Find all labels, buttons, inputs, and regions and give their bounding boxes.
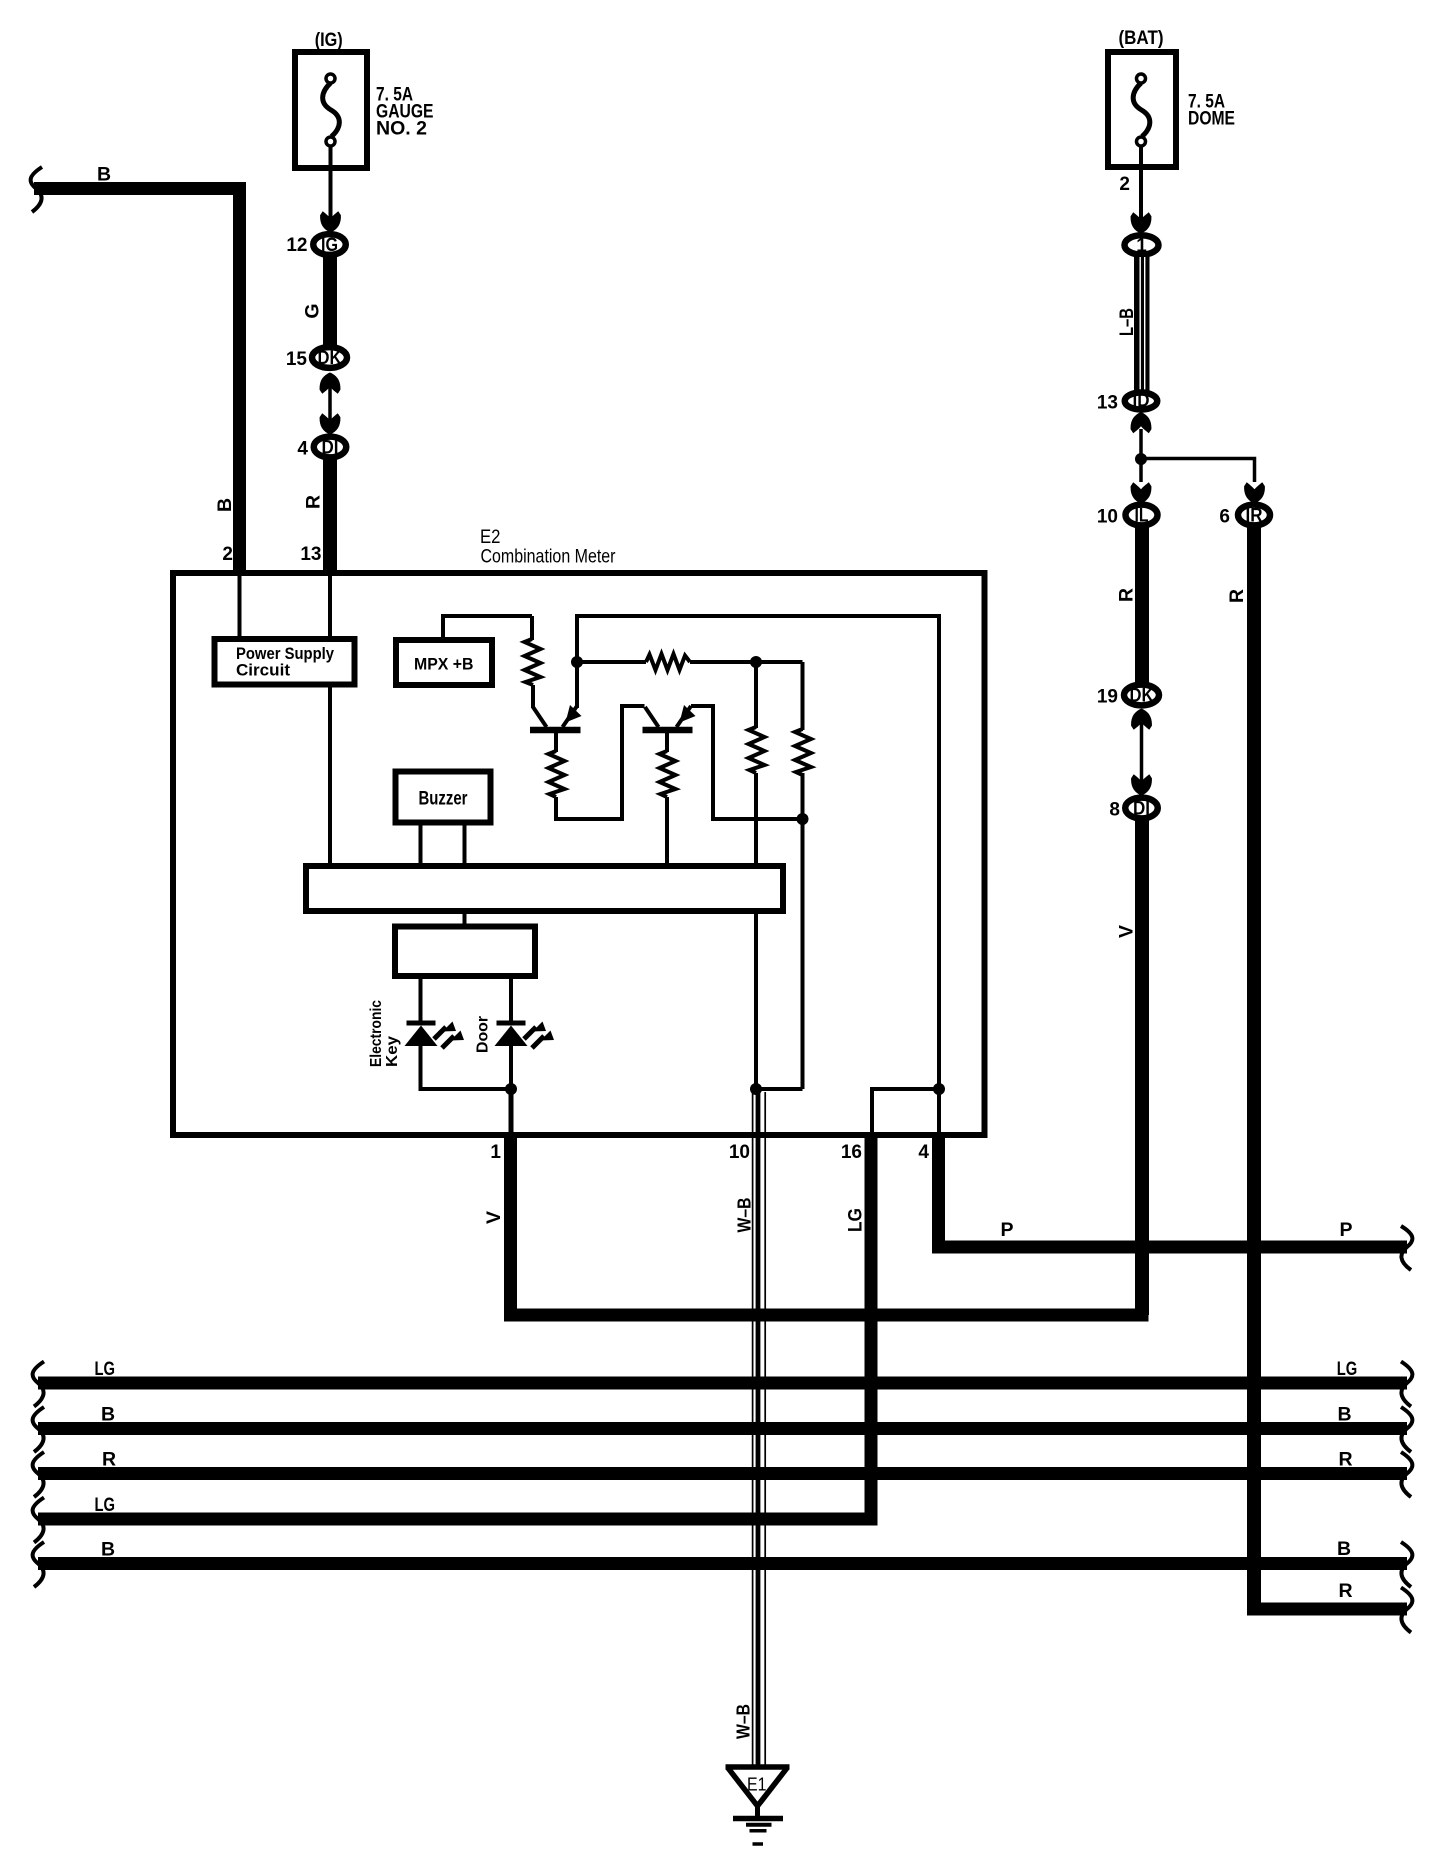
break symbol A right xyxy=(1401,1362,1412,1407)
connector arrow into IL xyxy=(1131,482,1152,503)
svg-text:Door: Door xyxy=(475,1016,492,1053)
svg-text:E2: E2 xyxy=(480,527,501,548)
wire MPX+B to R1 xyxy=(443,616,532,640)
svg-text:10: 10 xyxy=(1097,507,1118,528)
connector arrow into 1 xyxy=(1131,212,1152,233)
svg-text:NO. 2: NO. 2 xyxy=(376,119,427,140)
svg-text:R: R xyxy=(1338,1449,1352,1471)
svg-text:Electronic: Electronic xyxy=(368,1000,385,1067)
break symbol B left xyxy=(33,1407,44,1452)
wire LED2 return xyxy=(509,1046,513,1089)
fuse F1 7.5A GAUGE NO.2 xyxy=(295,52,367,168)
svg-text:LG: LG xyxy=(846,1208,867,1232)
svg-text:Buzzer: Buzzer xyxy=(419,789,468,810)
connector DI pin 8 xyxy=(1125,798,1158,820)
resistor R5 xyxy=(795,662,811,1089)
node D junction pin4 rail xyxy=(933,1083,945,1095)
node A top junction xyxy=(571,656,583,668)
svg-text:16: 16 xyxy=(841,1142,862,1163)
svg-text:4: 4 xyxy=(918,1142,929,1163)
resistor R6 (Q2 emitter) xyxy=(660,751,676,866)
svg-text:R: R xyxy=(1226,589,1248,603)
ground bar 4 xyxy=(753,1842,764,1846)
break symbol A left xyxy=(33,1362,44,1407)
svg-text:IL: IL xyxy=(1135,506,1149,527)
wire G xyxy=(323,256,337,346)
svg-text:(BAT): (BAT) xyxy=(1119,28,1164,49)
transistor Q1 xyxy=(530,705,582,752)
connector IL pin 10 xyxy=(1126,505,1158,527)
svg-text:10: 10 xyxy=(729,1142,750,1163)
wire bus to pin10 node xyxy=(754,910,758,1089)
break symbol left of B xyxy=(31,167,42,212)
svg-text:L–B: L–B xyxy=(1117,308,1138,336)
fuse F2 7.5A DOME xyxy=(1108,52,1176,167)
ground bar 2 xyxy=(746,1823,772,1827)
wire LG from pin 16 xyxy=(865,1135,878,1519)
svg-text:LG: LG xyxy=(94,1495,115,1516)
svg-text:1: 1 xyxy=(490,1142,501,1163)
svg-text:P: P xyxy=(1339,1219,1352,1241)
connector arrow up below DK xyxy=(320,373,341,394)
ground stub xyxy=(755,1803,760,1818)
svg-text:(IG): (IG) xyxy=(315,30,343,51)
wire V horizontal xyxy=(504,1309,1149,1322)
wire run B (line B) xyxy=(38,1422,1407,1435)
svg-text:LG: LG xyxy=(1337,1359,1358,1380)
wire V from DI down xyxy=(1135,820,1149,1315)
node E junction W-B xyxy=(750,1083,762,1095)
wire to pin 1 xyxy=(509,1089,514,1132)
svg-text:R: R xyxy=(1338,1580,1352,1602)
wire pin2 to power supply xyxy=(238,576,242,639)
svg-text:6: 6 xyxy=(1219,507,1230,528)
svg-text:2: 2 xyxy=(222,544,233,565)
connector arrow up below DK right xyxy=(1131,709,1152,730)
wire between DK and DI right xyxy=(1140,712,1144,792)
wire LED1 return xyxy=(421,1046,512,1089)
wire B vertical to pin 2 xyxy=(233,182,246,570)
svg-text:E1: E1 xyxy=(747,1775,767,1795)
LED D1 Electronic Key xyxy=(405,1022,465,1049)
connector arrow into IG xyxy=(320,211,341,232)
svg-text:G: G xyxy=(302,303,324,318)
svg-text:B: B xyxy=(1337,1538,1351,1560)
ground E1 triangle xyxy=(726,1767,790,1806)
wire run LG (line A) xyxy=(38,1377,1407,1390)
node LED junction xyxy=(505,1083,517,1095)
node junction xyxy=(1135,453,1147,465)
svg-text:DI: DI xyxy=(322,438,339,459)
svg-text:R: R xyxy=(303,495,325,509)
svg-text:4: 4 xyxy=(297,439,308,460)
svg-text:1: 1 xyxy=(1136,236,1147,257)
box buzzer xyxy=(396,772,491,823)
svg-text:Combination Meter: Combination Meter xyxy=(481,547,617,568)
svg-text:W–B: W–B xyxy=(735,1198,755,1233)
wire P from pin 4 xyxy=(939,1135,1408,1247)
svg-text:B: B xyxy=(101,1404,115,1426)
connector arrow down into DI xyxy=(320,413,341,434)
resistor R2 (Q1 emitter) xyxy=(549,751,565,821)
wire R into pin 13 xyxy=(323,459,337,570)
svg-text:R: R xyxy=(102,1449,116,1471)
connector DI pin 4 xyxy=(314,437,347,459)
wire driver to LED1 xyxy=(419,976,423,1022)
wire top rail xyxy=(577,616,939,1089)
wire fuse output xyxy=(329,146,333,231)
svg-text:IG: IG xyxy=(321,235,338,256)
resistor R4 xyxy=(749,662,765,866)
box MPX +B xyxy=(396,640,492,685)
svg-text:15: 15 xyxy=(286,349,308,370)
node B junction xyxy=(750,656,762,668)
wire L-B (striped) xyxy=(1134,257,1150,391)
connector DK pin 19 xyxy=(1124,685,1159,707)
svg-text:MPX +B: MPX +B xyxy=(414,655,474,674)
svg-text:13: 13 xyxy=(1097,393,1118,414)
svg-text:DK: DK xyxy=(1130,686,1154,707)
box LED driver xyxy=(395,927,535,977)
wire driver to LED2 xyxy=(509,976,513,1022)
bus bar block xyxy=(306,866,783,911)
wire power supply to bus xyxy=(328,684,332,866)
svg-text:B: B xyxy=(214,498,236,512)
wire down to junction xyxy=(1139,429,1143,482)
connector ID pin 13 xyxy=(1125,391,1158,411)
svg-text:IR: IR xyxy=(1246,506,1263,527)
connector DK pin 15 xyxy=(312,347,347,369)
connector 1 xyxy=(1125,235,1159,256)
resistor R1 xyxy=(525,616,541,708)
svg-text:19: 19 xyxy=(1097,687,1118,708)
connector arrow down into DI right xyxy=(1131,774,1152,795)
ground bar 1 xyxy=(733,1816,783,1822)
connector arrow into IR xyxy=(1244,482,1265,503)
svg-text:B: B xyxy=(1337,1404,1351,1426)
svg-text:V: V xyxy=(1116,925,1138,938)
LED D2 Door xyxy=(495,1022,555,1049)
break symbol D left xyxy=(33,1498,44,1543)
svg-text:ID: ID xyxy=(1133,391,1150,411)
wire buzzer leg 1 xyxy=(419,822,423,866)
break symbol B right xyxy=(1401,1407,1412,1452)
node C junction R5 xyxy=(797,813,809,825)
svg-text:2: 2 xyxy=(1119,174,1130,195)
svg-text:B: B xyxy=(97,164,111,186)
break symbol C right xyxy=(1401,1452,1412,1497)
svg-text:R: R xyxy=(1116,588,1138,602)
svg-text:DK: DK xyxy=(318,348,342,369)
wire notch to pin16 xyxy=(872,1089,939,1132)
svg-text:DI: DI xyxy=(1133,799,1150,820)
svg-text:V: V xyxy=(483,1211,505,1224)
svg-text:W–B: W–B xyxy=(734,1704,754,1739)
break symbol P right xyxy=(1401,1226,1412,1270)
svg-text:DOME: DOME xyxy=(1188,109,1235,130)
wire run B (line E) xyxy=(38,1557,1407,1570)
svg-text:P: P xyxy=(1000,1219,1013,1241)
connector IR pin 6 xyxy=(1238,505,1270,527)
wire pin13 to power supply xyxy=(328,576,332,639)
break symbol E right xyxy=(1401,1542,1412,1587)
box power supply circuit xyxy=(215,639,355,685)
connector IG pin 12 xyxy=(313,234,346,256)
wire buzzer leg 2 xyxy=(463,822,467,866)
wire run R (line C) xyxy=(38,1467,1407,1480)
wire R from IL to DK xyxy=(1135,527,1149,684)
wire branch to IR xyxy=(1141,459,1255,483)
wire Q1 to Q2 loop xyxy=(556,706,645,819)
wire R5 bottom to node E xyxy=(756,1087,803,1091)
wire B horizontal xyxy=(34,182,246,195)
svg-text:13: 13 xyxy=(300,544,321,565)
wire bus to LED driver xyxy=(463,911,467,928)
connector arrow up below ID xyxy=(1131,412,1152,433)
svg-text:8: 8 xyxy=(1109,800,1120,821)
break symbol F right xyxy=(1401,1588,1412,1633)
svg-text:LG: LG xyxy=(94,1359,115,1380)
svg-text:Circuit: Circuit xyxy=(236,661,290,680)
wire node A down to Q1 xyxy=(575,662,579,708)
svg-text:B: B xyxy=(101,1539,115,1561)
break symbol E left xyxy=(33,1542,44,1587)
wire run LG (line D) to pin16 xyxy=(38,1513,878,1526)
resistor R3 (horizontal) xyxy=(577,654,803,670)
wire V from pin 1 xyxy=(504,1135,517,1315)
wire R from IR down xyxy=(1247,527,1261,1609)
wire W-B triple line xyxy=(753,1089,766,1766)
wire fuse 2 output xyxy=(1139,146,1143,231)
wire Q2 collector loop to R5 xyxy=(691,706,803,819)
svg-text:12: 12 xyxy=(286,235,307,256)
box E2 Combination Meter xyxy=(173,573,985,1135)
wire run R (line F) from IR xyxy=(1247,1603,1407,1616)
transistor Q2 xyxy=(643,705,696,752)
wire to pin 4 xyxy=(937,1089,941,1132)
wire between connectors xyxy=(328,376,332,430)
ground bar 3 xyxy=(750,1829,767,1833)
break symbol C left xyxy=(33,1452,44,1497)
svg-text:Key: Key xyxy=(384,1036,401,1067)
